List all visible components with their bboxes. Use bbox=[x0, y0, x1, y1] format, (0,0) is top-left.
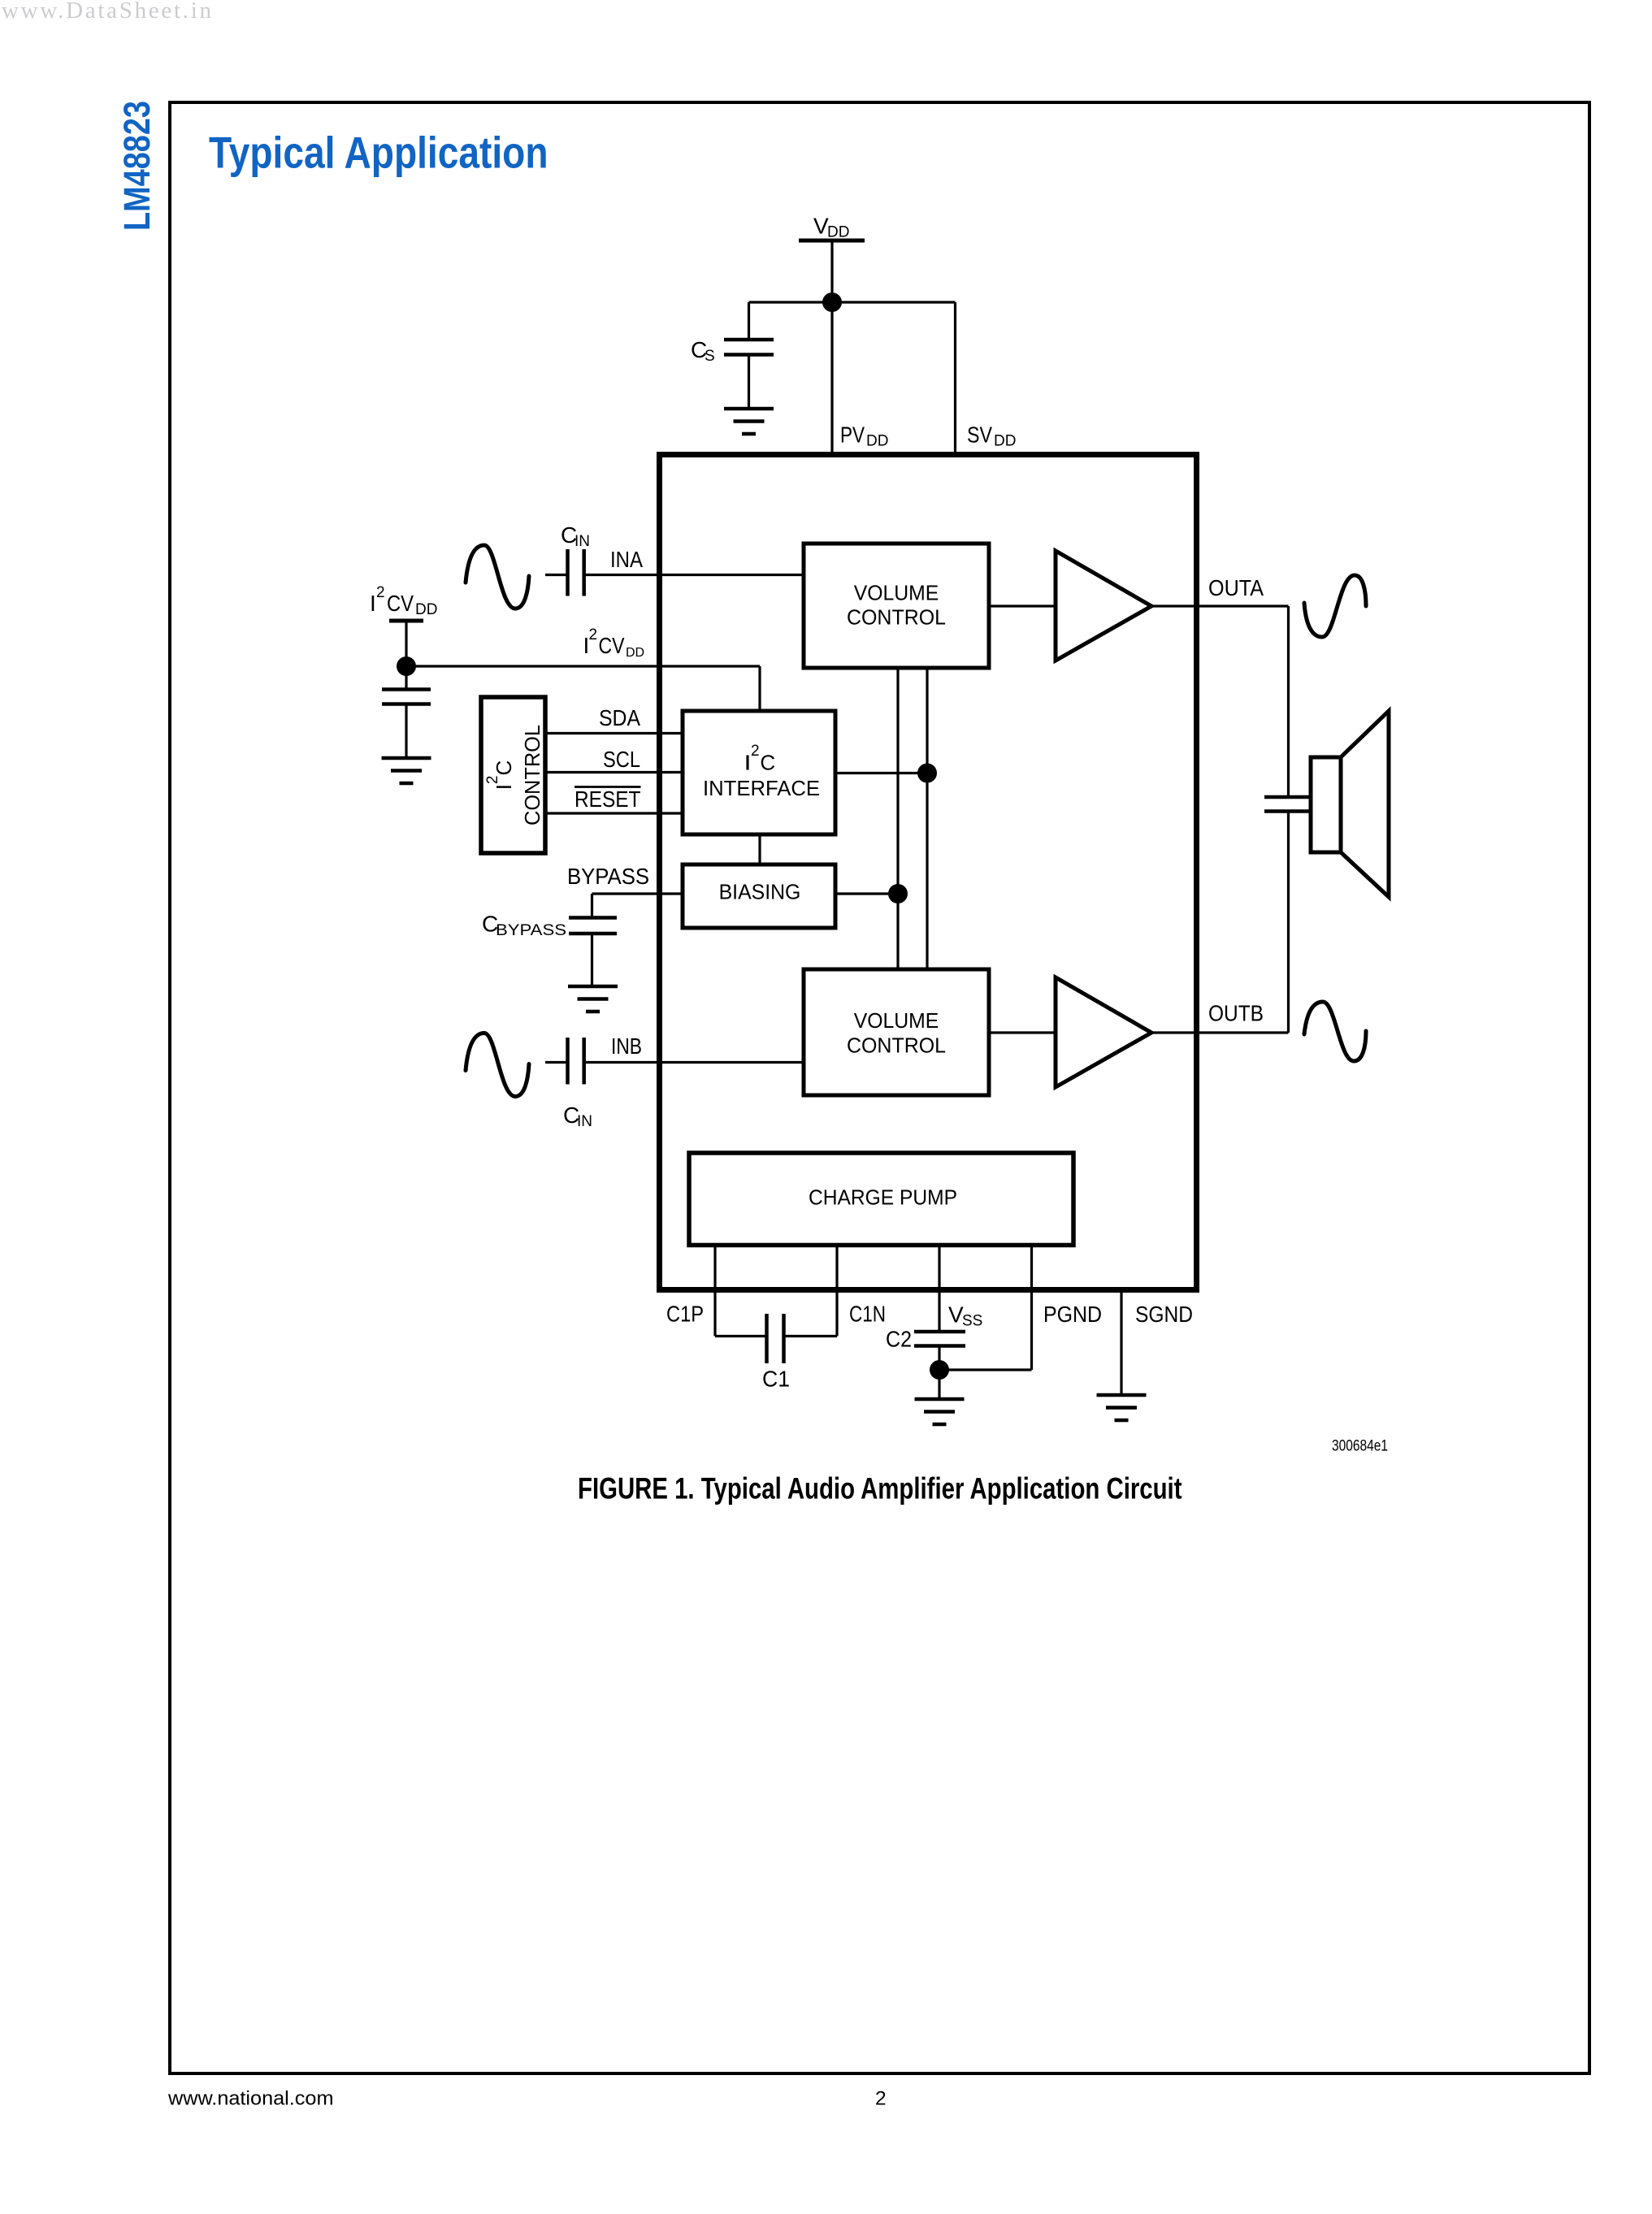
op-amp A bbox=[1056, 551, 1151, 661]
wire RESET bbox=[545, 812, 683, 814]
capacitor on I2CVDD bbox=[382, 690, 431, 704]
wire INA left stub bbox=[545, 574, 566, 576]
wire CBYPASS top leg bbox=[591, 894, 593, 918]
wire C1P pin bbox=[713, 1245, 716, 1337]
svg-text:C1N: C1N bbox=[849, 1302, 886, 1327]
wire I2C interface VDD leg bbox=[758, 666, 761, 711]
ground below CS bbox=[724, 409, 774, 434]
IC chip outline bbox=[660, 455, 1197, 1290]
svg-text:CV: CV bbox=[387, 591, 414, 616]
svg-text:C1P: C1P bbox=[666, 1302, 704, 1327]
wire volume control A to amp A bbox=[989, 604, 1056, 607]
svg-text:BIASING: BIASING bbox=[719, 880, 801, 904]
svg-text:LM48823: LM48823 bbox=[116, 101, 158, 231]
capacitor CIN (A) bbox=[568, 549, 584, 596]
wire amp A to OUTA bbox=[1151, 604, 1289, 607]
page border frame bbox=[170, 102, 1589, 2073]
block VOLUME CONTROL A bbox=[804, 544, 989, 668]
ground below I2CVDD cap bbox=[382, 758, 431, 783]
wire INA to volume control A bbox=[586, 574, 804, 576]
wire VDD vertical bbox=[830, 242, 833, 455]
wire speaker to OUTB bbox=[1287, 812, 1290, 1033]
svg-text:SDA: SDA bbox=[599, 705, 640, 730]
svg-text:OUTB: OUTB bbox=[1208, 1001, 1264, 1026]
output sine B bbox=[1304, 1002, 1366, 1061]
svg-text:I: I bbox=[745, 751, 750, 775]
wire interface output bbox=[835, 772, 927, 774]
svg-text:VOLUME: VOLUME bbox=[854, 1008, 939, 1033]
svg-text:SV: SV bbox=[967, 422, 992, 448]
capacitor C1 bbox=[767, 1314, 784, 1363]
wire INB left stub bbox=[545, 1061, 566, 1064]
wire VDD rail bbox=[749, 301, 956, 303]
svg-text:DD: DD bbox=[626, 646, 644, 660]
capacitor CS bbox=[724, 340, 774, 355]
wire I2CVDD cap leg bbox=[405, 666, 407, 690]
wire biasing output bbox=[835, 892, 898, 895]
source sine B input bbox=[466, 1033, 529, 1097]
svg-text:DD: DD bbox=[415, 601, 437, 618]
svg-text:DD: DD bbox=[827, 224, 849, 241]
svg-text:DD: DD bbox=[994, 433, 1016, 450]
svg-text:SCL: SCL bbox=[603, 747, 640, 772]
wire C1P jog bbox=[715, 1335, 765, 1337]
svg-text:CV: CV bbox=[599, 633, 625, 658]
svg-text:IN: IN bbox=[577, 1113, 592, 1130]
capacitor CIN (B) bbox=[568, 1038, 584, 1085]
wire CS ground leg bbox=[748, 355, 750, 409]
svg-text:PV: PV bbox=[840, 422, 865, 448]
svg-text:2: 2 bbox=[751, 743, 760, 760]
wire VSS pin bbox=[938, 1245, 940, 1332]
node I2CVDD junction bbox=[397, 656, 416, 676]
wire I2CVDD cap ground leg bbox=[405, 704, 407, 759]
node biasing bus junction bbox=[888, 884, 908, 903]
block I2C CONTROL (external) bbox=[481, 697, 545, 853]
svg-text:www.DataSheet.in: www.DataSheet.in bbox=[2, 0, 212, 24]
svg-text:C2: C2 bbox=[886, 1327, 912, 1352]
wire INB to volume control B bbox=[586, 1061, 804, 1064]
ground below C2 bbox=[915, 1399, 965, 1424]
wire C1N jog bbox=[786, 1335, 838, 1337]
svg-text:IN: IN bbox=[575, 533, 590, 550]
svg-text:CONTROL: CONTROL bbox=[847, 1033, 946, 1057]
wire PGND riser bbox=[1030, 1245, 1033, 1370]
svg-text:2: 2 bbox=[376, 584, 385, 601]
svg-text:CONTROL: CONTROL bbox=[847, 605, 946, 630]
svg-text:www.national.com: www.national.com bbox=[167, 2088, 334, 2110]
svg-text:SS: SS bbox=[962, 1313, 982, 1330]
wire volume control B to amp B bbox=[989, 1031, 1056, 1033]
wire SVDD leg bbox=[954, 302, 956, 455]
svg-text:INA: INA bbox=[610, 547, 643, 572]
wire OUTA down to speaker bbox=[1287, 606, 1290, 797]
svg-text:2: 2 bbox=[589, 626, 598, 643]
block I2C INTERFACE bbox=[683, 711, 835, 834]
svg-text:CONTROL: CONTROL bbox=[520, 725, 544, 825]
capacitor C2 bbox=[914, 1332, 965, 1346]
block BIASING bbox=[683, 864, 835, 928]
svg-text:BYPASS: BYPASS bbox=[567, 864, 649, 889]
svg-text:INB: INB bbox=[611, 1033, 642, 1059]
block CHARGE PUMP bbox=[689, 1153, 1073, 1246]
node interface bus junction bbox=[917, 764, 937, 783]
wire CS top leg bbox=[748, 302, 750, 340]
wire interface to biasing bbox=[758, 834, 761, 864]
svg-text:SGND: SGND bbox=[1135, 1302, 1193, 1327]
wire bus right bbox=[926, 668, 928, 969]
svg-text:C: C bbox=[760, 751, 775, 775]
svg-text:2: 2 bbox=[875, 2088, 887, 2110]
wire speaker terminal bottom bbox=[1264, 809, 1311, 813]
wire speaker terminal top bbox=[1264, 795, 1311, 799]
source sine A input bbox=[466, 545, 529, 609]
ground below CBYPASS bbox=[568, 986, 618, 1012]
svg-text:OUTA: OUTA bbox=[1208, 575, 1264, 600]
svg-text:C1: C1 bbox=[762, 1367, 790, 1392]
wire C1N pin bbox=[835, 1245, 838, 1337]
svg-text:FIGURE 1. Typical Audio Amplif: FIGURE 1. Typical Audio Amplifier Applic… bbox=[578, 1472, 1182, 1506]
output sine A bbox=[1304, 575, 1366, 637]
svg-text:VOLUME: VOLUME bbox=[854, 581, 939, 605]
op-amp B bbox=[1056, 977, 1151, 1087]
wire SDA bbox=[545, 732, 683, 734]
part number LM48823 (vertical) bbox=[116, 101, 158, 231]
wire PGND horizontal bbox=[939, 1368, 1032, 1371]
node VSS/PGND ground junction bbox=[930, 1360, 949, 1380]
svg-text:DD: DD bbox=[866, 433, 888, 450]
speaker bbox=[1311, 757, 1341, 852]
supply rail symbol VDD bbox=[799, 239, 865, 243]
wire C2 to ground node bbox=[938, 1346, 940, 1400]
wire BYPASS bbox=[592, 892, 683, 895]
wire amp B to OUTB bbox=[1151, 1031, 1289, 1033]
svg-text:RESET: RESET bbox=[575, 786, 641, 812]
svg-text:PGND: PGND bbox=[1043, 1302, 1102, 1327]
svg-text:300684e1: 300684e1 bbox=[1332, 1437, 1388, 1455]
svg-text:Typical Application: Typical Application bbox=[209, 128, 548, 178]
capacitor CBYPASS bbox=[569, 918, 617, 934]
supply rail symbol I2CVDD bbox=[389, 619, 423, 623]
block VOLUME CONTROL B bbox=[804, 969, 989, 1095]
wire SGND leg bbox=[1120, 1292, 1122, 1395]
wire CBYPASS ground leg bbox=[591, 934, 593, 986]
svg-text:INTERFACE: INTERFACE bbox=[703, 776, 820, 800]
wire bus left bbox=[896, 668, 899, 969]
svg-text:S: S bbox=[705, 348, 715, 365]
svg-text:I: I bbox=[370, 591, 376, 616]
svg-text:CHARGE PUMP: CHARGE PUMP bbox=[809, 1185, 957, 1209]
ground below SGND bbox=[1097, 1395, 1147, 1420]
wire I2CVDD bar leg bbox=[405, 622, 407, 666]
wire SCL bbox=[545, 771, 683, 773]
node VDD junction bbox=[822, 292, 842, 312]
svg-text:BYPASS: BYPASS bbox=[496, 922, 566, 939]
wire I2CVDD rail bbox=[406, 665, 760, 667]
